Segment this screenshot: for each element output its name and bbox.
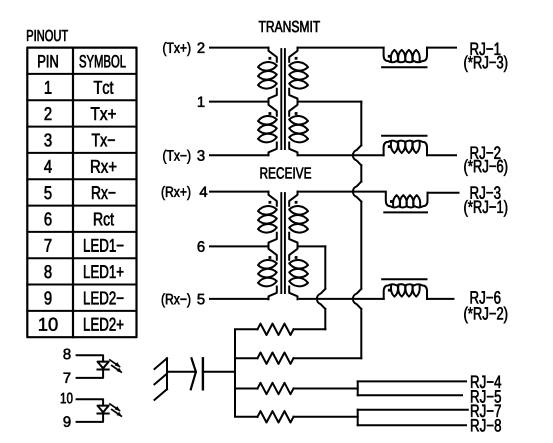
title TRANSMIT: [259, 21, 320, 32]
pin label (Rx−): [162, 293, 190, 307]
wire resistor R3 to RJ-4/RJ-5 junction: [294, 388, 358, 390]
wire T2 secondary bottom to RJ-6 choke: [300, 298, 384, 300]
wire pin 6: [210, 245, 269, 247]
choke L3 (RJ-3 line) body: [386, 193, 428, 208]
bus wire joining resistors: [235, 329, 258, 417]
choke L2 (RJ-2 line) core line: [382, 135, 426, 137]
riser wire: T1 center tap down to resistor R2 (with hops): [353, 102, 361, 359]
wire T1 secondary bottom to RJ-2 choke: [298, 154, 384, 156]
label RJ−2: [471, 146, 501, 159]
transformer T1 (TRANSMIT): core: [281, 49, 285, 149]
pin 4 label: [200, 187, 208, 197]
pin 6 label: [198, 241, 205, 252]
choke L1 (RJ-1 line) body: [384, 48, 427, 63]
wire RJ-2 output: [427, 154, 456, 156]
transformer T1 (TRANSMIT): polarity dots: [269, 57, 272, 60]
resistor R4: [258, 411, 294, 422]
wire capacitor to bus: [203, 371, 235, 373]
wire T2 secondary top to RJ-3 choke: [298, 191, 386, 193]
chassis ground: [155, 358, 168, 400]
PINOUT title: [27, 30, 68, 41]
LED D2 pin 9 label: [64, 416, 71, 427]
wire T1 secondary center tap: [298, 101, 362, 103]
wire RJ-8: [358, 424, 466, 426]
transformer T1 (TRANSMIT): left winding upper: [269, 48, 277, 102]
label (*RJ−3): [464, 56, 507, 73]
transformer T1 (TRANSMIT): right winding lower: [289, 102, 297, 156]
choke L4 (RJ-6 line) core line: [382, 278, 426, 280]
label (*RJ−1): [464, 200, 507, 217]
transformer T2 (RECEIVE): right winding lower: [289, 246, 297, 300]
title RECEIVE: [261, 167, 312, 178]
transformer T2 (RECEIVE): left winding lower: [269, 246, 277, 300]
wire RJ-6 output: [427, 298, 454, 300]
label (*RJ−2): [464, 307, 507, 324]
pin 1 label: [198, 97, 204, 107]
label RJ−7: [471, 405, 501, 417]
label RJ−8: [471, 419, 501, 432]
transformer T2 (RECEIVE): right winding upper: [289, 192, 297, 246]
choke L3 (RJ-3 line) polarity dot: [390, 200, 393, 203]
label (*RJ−6): [464, 159, 507, 176]
capacitor C1: [191, 358, 196, 389]
wire RJ-7: [358, 409, 468, 411]
wire pin 5: [210, 298, 269, 300]
LED D1 pin 8 label: [64, 349, 71, 360]
transformer T2 (RECEIVE): left winding upper: [269, 192, 277, 246]
pin label (Tx+): [163, 42, 190, 56]
riser wire: T2 center tap down to resistor R1 (with hop): [317, 246, 325, 329]
resistor R3: [258, 383, 294, 394]
resistor R1: [258, 324, 294, 335]
wire pin 4: [210, 191, 269, 193]
choke L4 (RJ-6 line) body: [384, 284, 427, 299]
wire resistor R4 to RJ-7/RJ-8 junction: [294, 416, 358, 418]
transformer T2 (RECEIVE): core: [281, 193, 285, 293]
pin 3 label: [197, 150, 204, 161]
wire resistor R2 to T1 center tap riser: [294, 357, 362, 359]
LED D1 pin 7 label: [64, 373, 71, 383]
label RJ−3: [471, 186, 501, 199]
label RJ−1: [471, 43, 501, 55]
wire RJ-4: [358, 380, 466, 382]
junction bar RJ-4/RJ-5: [357, 381, 359, 395]
transformer T1 (TRANSMIT): right winding upper: [289, 48, 297, 102]
choke L1 (RJ-1 line) polarity dot: [388, 55, 391, 58]
wire RJ-3 output: [428, 192, 459, 194]
wire T2 secondary center tap: [298, 245, 326, 247]
pin 5 label: [197, 294, 204, 304]
resistor R2: [258, 353, 294, 364]
junction bar RJ-7/RJ-8: [357, 410, 359, 426]
wire pin 1: [210, 101, 269, 103]
label RJ−6: [471, 291, 501, 304]
choke L4 (RJ-6 line) polarity dot: [388, 289, 391, 292]
pin label (Tx−): [163, 150, 190, 164]
wire RJ-1 output: [427, 47, 456, 49]
label RJ−5: [471, 390, 501, 402]
label RJ−4: [471, 376, 501, 388]
pin label (Rx+): [162, 186, 190, 200]
LED D2 pin 10 label: [61, 393, 73, 404]
wire T1 secondary top to RJ-1 choke: [298, 47, 384, 49]
wire resistor R1 to T2 center tap riser: [294, 328, 326, 330]
pinout table frame: [27, 48, 136, 338]
pinout table text: [38, 55, 57, 67]
choke L1 (RJ-1 line) core line: [382, 66, 426, 68]
transformer T1 (TRANSMIT): left winding lower: [269, 102, 277, 156]
pin 2 label: [198, 42, 205, 53]
choke L2 (RJ-2 line) body: [384, 141, 427, 156]
LED D2 (LED2): [77, 399, 104, 422]
LED D1 (LED1): [77, 355, 104, 378]
wire pin 3: [210, 154, 269, 156]
transformer T2 (RECEIVE): polarity dots: [269, 201, 272, 204]
choke L3 (RJ-3 line) core line: [384, 211, 427, 213]
wire ground to capacitor: [167, 371, 196, 373]
choke L2 (RJ-2 line) polarity dot: [388, 145, 391, 148]
wire pin 2: [210, 47, 269, 49]
wire RJ-5: [358, 394, 462, 396]
